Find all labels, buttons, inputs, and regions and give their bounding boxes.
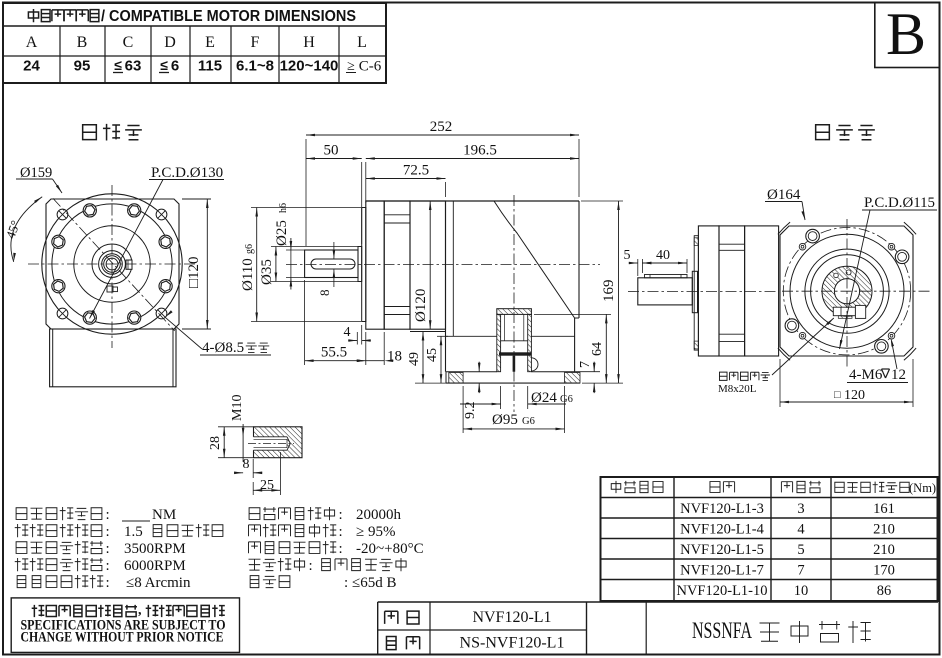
title block model table	[378, 602, 938, 654]
input face: boss circle	[790, 234, 904, 348]
dim 50	[361, 162, 363, 244]
svg-text:170: 170	[873, 563, 895, 579]
svg-text:NM: NM	[152, 507, 176, 523]
input face: corner arcs D164	[904, 222, 916, 234]
svg-text:50: 50	[324, 143, 339, 159]
dim 252	[305, 139, 307, 246]
svg-text:120~140: 120~140	[280, 58, 339, 75]
svg-text:196.5: 196.5	[463, 143, 497, 159]
specifications notice box	[11, 598, 239, 653]
output face: hub keyway mark	[126, 260, 132, 269]
side view: mounting flange plate	[366, 201, 384, 329]
svg-text:≤: ≤	[160, 57, 168, 73]
dim 4	[356, 332, 358, 345]
output face: 4 corner through holes 8.5	[156, 209, 167, 220]
dim 49	[422, 332, 424, 384]
input face: 4 mounting bolt holes M	[895, 250, 909, 264]
svg-text:55.5: 55.5	[321, 345, 347, 361]
svg-text:169: 169	[601, 280, 617, 303]
svg-text:45: 45	[425, 348, 440, 362]
input side: collar ring	[692, 271, 697, 312]
svg-text:(Nm): (Nm)	[909, 481, 936, 495]
side view: housing ring section	[384, 201, 410, 329]
svg-text:NVF120-L1: NVF120-L1	[472, 609, 551, 626]
svg-text:64: 64	[590, 342, 605, 356]
output face: circle inner 2	[92, 244, 132, 284]
svg-text:≤: ≤	[114, 57, 122, 73]
svg-text:C-6: C-6	[359, 59, 382, 75]
svg-text:/ COMPATIBLE MOTOR DIMENSIONS: / COMPATIBLE MOTOR DIMENSIONS	[101, 8, 356, 25]
svg-text:4: 4	[344, 325, 351, 340]
svg-text:6: 6	[171, 58, 179, 75]
svg-text:18: 18	[387, 349, 402, 365]
svg-text:M8x20L: M8x20L	[718, 383, 757, 395]
svg-text:Ø95: Ø95	[492, 412, 518, 428]
svg-text:5: 5	[797, 542, 804, 558]
svg-text:M10: M10	[230, 395, 245, 421]
svg-text:-20~+80°C: -20~+80°C	[356, 541, 424, 557]
svg-text::: :	[339, 541, 343, 557]
output face: circle inner 1	[74, 226, 150, 302]
dim 169	[581, 200, 623, 202]
dim D24 G6	[500, 386, 502, 409]
input side: block C	[745, 226, 779, 356]
dim 72.5	[445, 182, 447, 197]
svg-text:H: H	[303, 34, 315, 51]
svg-text:L: L	[357, 34, 367, 51]
input face: clamp blocks in bore	[833, 307, 855, 316]
side view: front section plate	[410, 201, 446, 329]
svg-text:D: D	[164, 34, 176, 51]
side view: bottom flange with hatch	[446, 371, 497, 373]
svg-text:Ø164: Ø164	[767, 187, 801, 203]
dim 45 degree arc	[11, 197, 42, 262]
svg-text:P.C.D.Ø130: P.C.D.Ø130	[151, 165, 223, 181]
side view: vertical centerline of output bore	[513, 195, 515, 412]
dim box120 input	[779, 359, 781, 407]
label input end	[816, 125, 830, 140]
svg-text::: :	[106, 524, 110, 540]
input side: plate B with steps	[719, 226, 745, 356]
detail centerline	[248, 443, 294, 445]
svg-text:NVF120-L1-5: NVF120-L1-5	[680, 542, 764, 558]
detail dim 8	[252, 459, 254, 478]
side view: pilot spigot D110	[362, 208, 366, 322]
svg-text:NS-NVF120-L1: NS-NVF120-L1	[460, 635, 565, 652]
input face: PCD115 bolt circle dash-dot	[783, 228, 910, 355]
svg-text:86: 86	[877, 583, 892, 599]
input face: square flange with chamfered corners	[780, 226, 913, 356]
detail bore channel	[251, 437, 287, 450]
side view: gearbox body	[366, 200, 579, 202]
input face: horizontal centerline	[782, 290, 930, 292]
svg-text::: :	[309, 558, 313, 574]
svg-text::: :	[344, 575, 348, 591]
input side: plate A	[698, 226, 719, 356]
svg-text:210: 210	[873, 522, 895, 538]
svg-text:210: 210	[873, 542, 895, 558]
output face: square flange	[46, 199, 179, 329]
svg-text:G6: G6	[560, 394, 573, 405]
customer selection table	[601, 477, 938, 601]
side view: shaft keyway slot	[311, 259, 355, 269]
dim 8 keyway	[333, 242, 335, 259]
output face: horizontal centerline	[28, 263, 196, 265]
svg-text:6.1~8: 6.1~8	[236, 58, 274, 75]
svg-text:40: 40	[656, 248, 670, 263]
svg-text:Ø24: Ø24	[531, 390, 557, 406]
svg-text:5: 5	[624, 248, 631, 263]
svg-text:63: 63	[125, 58, 142, 75]
svg-text:25: 25	[260, 478, 274, 493]
svg-text:□120: □120	[186, 256, 202, 288]
title block labels	[385, 611, 398, 624]
svg-text:28: 28	[208, 436, 223, 450]
svg-text:12: 12	[891, 367, 906, 383]
dim D120	[429, 201, 431, 329]
dim 45	[437, 335, 448, 337]
svg-text:g6: g6	[244, 244, 255, 254]
svg-text:≤65d B: ≤65d B	[352, 575, 397, 591]
svg-text:F: F	[251, 34, 260, 51]
svg-text:45°: 45°	[3, 218, 23, 240]
output face: base block	[50, 329, 176, 387]
svg-text:6000RPM: 6000RPM	[124, 558, 186, 574]
svg-text:3: 3	[797, 501, 804, 517]
svg-text:10: 10	[794, 583, 809, 599]
svg-text:3500RPM: 3500RPM	[124, 541, 186, 557]
svg-text:≥: ≥	[347, 59, 355, 74]
spec text column 2	[249, 508, 260, 520]
svg-text:E: E	[205, 34, 215, 51]
svg-text:Ø35: Ø35	[259, 259, 275, 285]
dim D95 G6	[462, 386, 464, 433]
input side: key strip	[645, 275, 688, 278]
svg-text::: :	[106, 541, 110, 557]
side view: horizontal centerline	[286, 264, 600, 266]
selection table headers	[611, 481, 621, 493]
spec text column 1	[16, 508, 27, 520]
compatible motor dimensions table	[3, 3, 386, 83]
svg-text:8: 8	[317, 290, 332, 297]
input face: ring circles	[805, 249, 889, 333]
svg-text:P.C.D.Ø115: P.C.D.Ø115	[864, 195, 935, 211]
svg-text:≤8 Arcmin: ≤8 Arcmin	[126, 575, 191, 591]
output face: outer circle D159	[42, 194, 182, 334]
svg-text:B: B	[77, 34, 88, 51]
dim 196.5	[365, 162, 367, 203]
svg-text:NVF120-L1-7: NVF120-L1-7	[680, 563, 764, 579]
svg-text:4-M6: 4-M6	[849, 367, 883, 383]
svg-text:,: ,	[138, 603, 142, 618]
svg-text:1.5: 1.5	[124, 524, 143, 540]
output face: hub clamp detail	[107, 286, 113, 292]
svg-text:8: 8	[243, 457, 250, 472]
dim 64	[534, 313, 611, 315]
svg-text::: :	[106, 507, 110, 523]
sheet revision box B	[875, 3, 940, 68]
svg-text:≥ 95%: ≥ 95%	[356, 524, 395, 540]
side view: shoulder D35	[358, 247, 362, 282]
svg-text:7: 7	[797, 563, 804, 579]
dim 55.5	[304, 280, 306, 365]
output face: circle D110 boss	[52, 204, 172, 324]
svg-text:NVF120-L1-10: NVF120-L1-10	[676, 583, 767, 599]
svg-text::: :	[339, 507, 343, 523]
detail dim 28	[218, 426, 254, 428]
input side: horizontal centerline	[628, 291, 777, 293]
svg-text:Ø120: Ø120	[413, 289, 429, 322]
svg-text:Ø110: Ø110	[240, 258, 256, 291]
svg-text:49: 49	[407, 352, 422, 366]
svg-text:C: C	[123, 34, 134, 51]
svg-text:Ø25: Ø25	[274, 220, 290, 246]
input face: 4 small holes on diagonals	[888, 243, 895, 250]
dim box120 left view	[182, 198, 211, 200]
detail dim 25	[279, 452, 281, 495]
side view: output shaft D25	[305, 250, 358, 278]
svg-text:161: 161	[873, 501, 895, 517]
table title	[28, 9, 38, 22]
input side: clamp plate with hatch tips	[694, 236, 698, 350]
input face: vertical centerline	[846, 219, 848, 368]
output face: 8 hex socket bolts	[159, 235, 172, 248]
svg-text:NVF120-L1-3: NVF120-L1-3	[680, 501, 764, 517]
svg-text:4-Ø8.5: 4-Ø8.5	[202, 340, 244, 356]
dim D35	[271, 246, 359, 248]
svg-text:7: 7	[578, 361, 593, 368]
svg-text:4: 4	[797, 522, 805, 538]
svg-text:NVF120-L1-4: NVF120-L1-4	[680, 522, 765, 538]
svg-text:B: B	[886, 1, 926, 67]
dim D110 g6	[251, 207, 361, 209]
svg-text:A: A	[26, 34, 38, 51]
output face: vertical centerline	[111, 185, 113, 348]
svg-text:120: 120	[844, 388, 865, 403]
dim 18	[383, 332, 385, 365]
input side: sleeve body	[638, 278, 693, 305]
svg-text::: :	[106, 575, 110, 591]
side view: output cylinder section	[497, 309, 532, 315]
input face: hub balance holes	[834, 273, 839, 278]
output face: diagonal centerline	[53, 198, 175, 331]
svg-text:G6: G6	[522, 416, 535, 427]
svg-text:h6: h6	[278, 203, 289, 213]
svg-text:95: 95	[74, 58, 91, 75]
side view: corner diagonal web	[494, 201, 575, 318]
input face: hatched hub annulus	[822, 266, 872, 316]
detail block M10 hatched section	[254, 427, 303, 458]
svg-text:72.5: 72.5	[403, 163, 429, 179]
output face: hub circles	[99, 251, 126, 278]
svg-text:24: 24	[23, 58, 40, 75]
svg-text::: :	[339, 524, 343, 540]
dim 9.2	[478, 362, 480, 372]
dim D25 h6	[286, 249, 306, 251]
svg-text:□: □	[834, 389, 841, 401]
svg-text:NSSNFA: NSSNFA	[692, 618, 752, 643]
svg-text::: :	[106, 558, 110, 574]
dim 40 input	[686, 259, 688, 273]
svg-text:20000h: 20000h	[356, 507, 402, 523]
dim 7	[593, 362, 595, 372]
label hex socket screw M8x20L	[719, 372, 727, 380]
svg-text:CHANGE WITHOUT PRIOR NOTICE: CHANGE WITHOUT PRIOR NOTICE	[21, 630, 224, 646]
svg-text:252: 252	[430, 119, 453, 135]
svg-text:115: 115	[198, 58, 222, 75]
dim 5 input	[637, 259, 639, 276]
label output end	[83, 125, 97, 140]
